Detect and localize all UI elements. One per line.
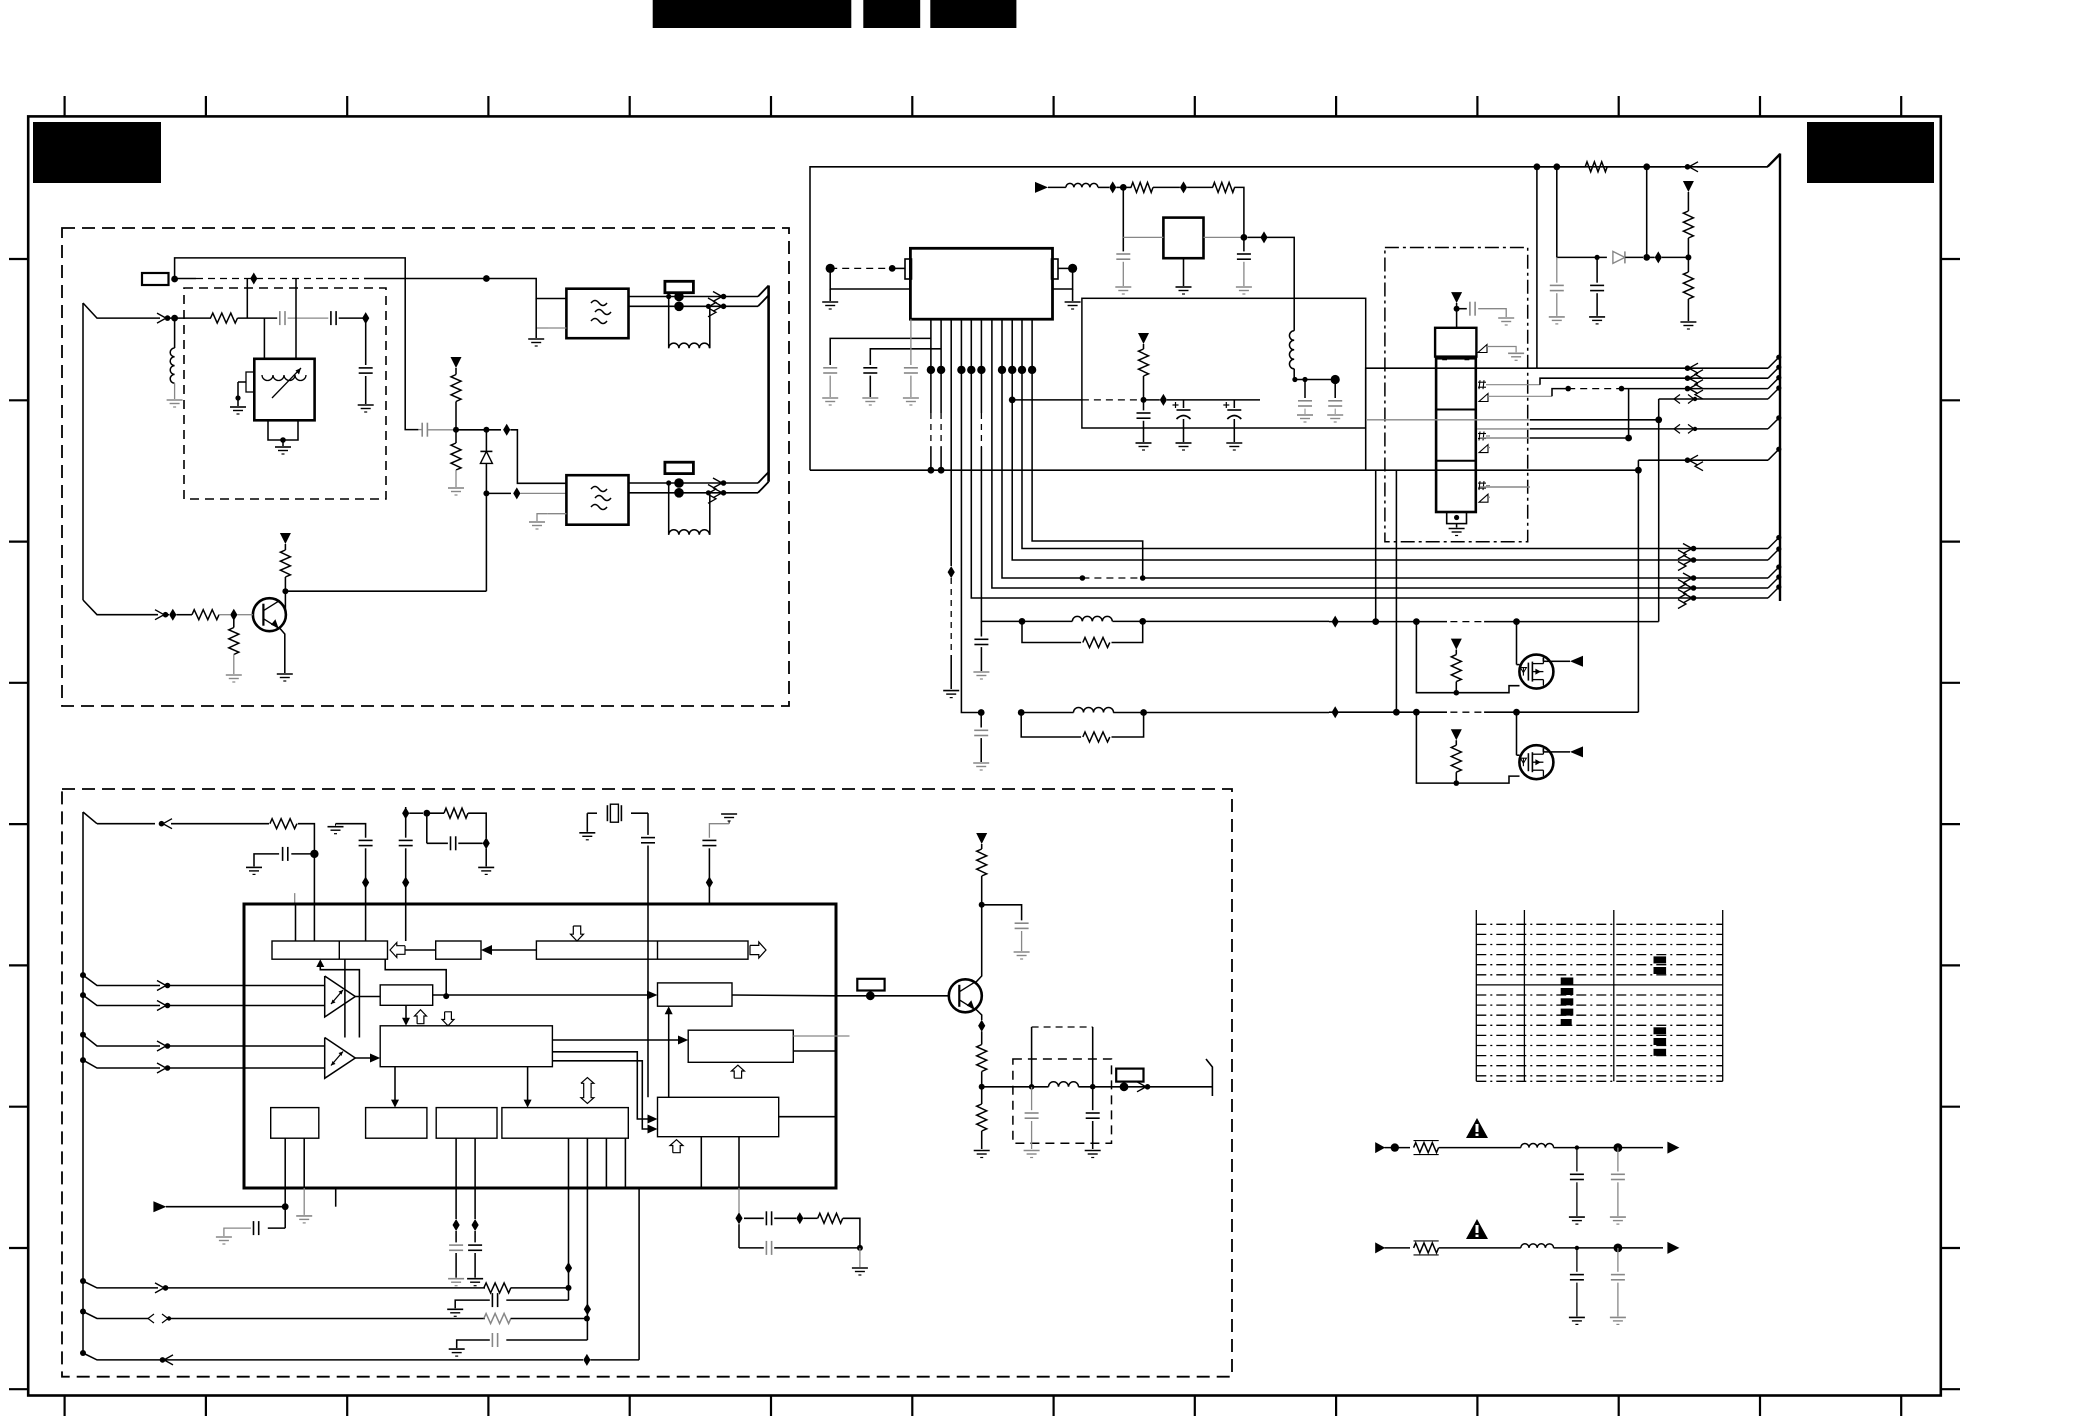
drain arrow wire [1542, 748, 1544, 752]
vertical link [1628, 389, 1630, 438]
label box P5 [1116, 1069, 1143, 1082]
block B7 video processor [380, 1026, 552, 1067]
row2 cap [980, 713, 982, 728]
bias network power arrow [451, 357, 462, 368]
up arrow under B13 [731, 1065, 744, 1078]
wire to F2 pin2 [486, 492, 511, 494]
cap pin x365 [328, 826, 344, 828]
redacted title bar 3 [930, 0, 1016, 28]
row d gate feed M1 [1658, 399, 1660, 622]
row3 diamond [583, 1354, 590, 1366]
B1 to PLL wire [385, 959, 446, 996]
block B8 [271, 1108, 319, 1139]
lower branch [426, 813, 428, 843]
power arrow Q1 collector [280, 533, 291, 544]
block B13 [688, 1030, 793, 1062]
label box P2 [665, 281, 694, 292]
input row 1 wire [83, 303, 160, 318]
voltage regulator U2 [1163, 218, 1203, 259]
resistor R14 [976, 833, 987, 844]
wire to regulator node [1234, 187, 1244, 237]
F1 ground pin [548, 327, 566, 329]
decoupling cap C8 [1334, 380, 1336, 399]
left bus box2 [82, 812, 84, 1353]
wire B7 to B14 upper [552, 1052, 653, 1119]
ecap C11 [1233, 400, 1235, 408]
dashed row segment [1450, 621, 1484, 623]
row c dashed [1552, 389, 1566, 397]
wire diode to Q1 collector [485, 493, 487, 591]
wire [339, 317, 366, 319]
B14 bottom pins [700, 1137, 702, 1188]
wire corner up [1366, 368, 1537, 470]
row1 cap to ground [506, 1299, 568, 1301]
block B3 [536, 941, 748, 959]
B8 bottom pins [284, 1138, 286, 1188]
supply input arrow [1035, 182, 1048, 193]
vertical B5 to B7 [405, 1005, 407, 1021]
block B14 [658, 1097, 779, 1136]
sec1 pins [1478, 381, 1486, 383]
cap C9 [1143, 400, 1145, 411]
cap 2 [1617, 1248, 1619, 1272]
SAW filter F1 [566, 289, 628, 339]
B13 outputs [793, 1035, 849, 1037]
wire inductor leg [174, 318, 176, 348]
label box P1 [142, 273, 169, 285]
capacitor C3 vertical [365, 318, 367, 365]
ground [230, 406, 246, 408]
row h gate feed M2 [1637, 460, 1639, 712]
label box P3 [665, 462, 694, 473]
diamond [1260, 231, 1267, 243]
cap 1 [1576, 1248, 1578, 1272]
resistor R15 [981, 1031, 983, 1044]
left pin wires [826, 264, 835, 273]
coupling capacitor C4 [418, 429, 421, 431]
series cap C15 [310, 850, 318, 858]
capacitor C1 [279, 311, 281, 325]
wire F1 ground leg [535, 299, 537, 339]
decoupling caps under IC1 [830, 338, 931, 365]
fusible resistor [1414, 1143, 1439, 1153]
feedback resistor R17 [803, 1217, 817, 1219]
wire top loop [175, 258, 419, 430]
connector body [1436, 358, 1476, 512]
B14 output [779, 1116, 836, 1118]
redacted title bar 1 [653, 0, 852, 28]
B11 bottom pins [568, 1138, 570, 1188]
ground [358, 404, 374, 406]
vertical B12 to B14 [668, 1011, 670, 1098]
wire [288, 317, 329, 319]
cap 1 [1576, 1148, 1578, 1172]
inductor L6 [1049, 1082, 1079, 1087]
bottom boundary wire [810, 469, 1638, 471]
IF bus vertical [767, 286, 770, 482]
sec3 stub [1480, 486, 1530, 488]
pin caps B9 B10 [455, 1188, 457, 1219]
ground [277, 673, 293, 675]
IC1 demodulator [910, 248, 1052, 319]
arrow into B2 [489, 949, 536, 951]
row2 damping [1018, 709, 1025, 716]
block B9 [366, 1108, 427, 1139]
junction diamond [250, 273, 257, 285]
decoupling cap C7 [1304, 380, 1306, 399]
grid tick marks [63, 96, 65, 116]
wire osc tap [246, 279, 248, 319]
connection table [1475, 910, 1477, 1081]
wire to F1 input [364, 279, 566, 299]
node [483, 490, 489, 496]
F1 outputs [629, 296, 759, 298]
wire B5 out [433, 994, 653, 996]
arrows [713, 478, 722, 488]
B9 B10 bottom pins [455, 1138, 457, 1188]
row e [1366, 419, 1530, 421]
fusible resistor [1414, 1243, 1439, 1253]
inductor [1521, 1144, 1554, 1148]
transistor Q1 [253, 598, 286, 631]
ecap C10 [1183, 400, 1185, 408]
resistor R4 [284, 544, 286, 550]
up-down arrow [581, 1078, 594, 1104]
cap C12 [1457, 308, 1467, 310]
redacted label box top-left [33, 122, 161, 183]
inductor L5 [1021, 712, 1073, 714]
MOSFET [1519, 655, 1553, 689]
IC1 bottom pins [930, 319, 932, 413]
stub pin [335, 1188, 337, 1207]
node row [1685, 254, 1691, 260]
IF section boundary wire [810, 154, 1780, 471]
open arrows B5 [415, 1010, 427, 1024]
arrows [713, 292, 722, 302]
inner dashed box oscillator [184, 288, 386, 499]
sec3 pins [1478, 482, 1486, 484]
diamond [1109, 181, 1116, 193]
gate wire [1516, 712, 1518, 755]
power arrow [1138, 333, 1149, 344]
sec2 pins [1478, 433, 1486, 435]
feedback cap C16 [744, 1217, 764, 1219]
connector neck [1443, 357, 1447, 360]
collector node [282, 588, 288, 594]
pin8 tap to supply box [1009, 397, 1016, 404]
resistor R1 [211, 313, 238, 323]
dashed enclosure tuner section [62, 228, 789, 706]
right pin wires [1068, 264, 1077, 273]
block B2 [436, 941, 481, 959]
table redaction marks col3 lower [1654, 1027, 1667, 1034]
row g [1480, 437, 1530, 439]
output flag [1206, 1059, 1212, 1096]
top loop [1031, 1027, 1033, 1087]
wire B12 out to Q2 [732, 994, 836, 997]
supply node row [1294, 379, 1335, 381]
regulator ground pin [1183, 258, 1185, 286]
MOSFET [1519, 745, 1553, 779]
T1 left pin tab [246, 372, 254, 392]
resistor R16 [981, 1087, 983, 1104]
capacitor C2 [330, 311, 332, 325]
warning triangle [1466, 1219, 1488, 1239]
arrow into mixer [157, 313, 166, 323]
pull resistor [1451, 639, 1462, 650]
row f [1477, 428, 1530, 430]
pin stub wires [1486, 384, 1540, 386]
down arrow above B3 [571, 926, 584, 941]
wires B7 to B13 [552, 1039, 684, 1041]
junction diamond [362, 312, 369, 324]
pin to osc block [405, 904, 407, 941]
ground [226, 674, 242, 676]
resistor R12 [1687, 257, 1689, 272]
wire to F2 [456, 429, 501, 431]
ground [275, 446, 291, 448]
IC1 left pin tab [905, 259, 912, 279]
wire [238, 317, 278, 319]
drain arrow wire [1542, 658, 1544, 662]
resistor R8 [1187, 186, 1213, 188]
shunt inductor T3 [668, 483, 670, 535]
M2 row to gate vertical [1517, 711, 1639, 713]
gate wire [1516, 622, 1518, 665]
resistor R7 [1123, 186, 1131, 188]
pin junction dots [927, 366, 935, 374]
triangle amp A1 [325, 976, 356, 1017]
wire B7 to B14 lower [552, 1061, 653, 1129]
ground [448, 487, 464, 489]
IC1 right pin tab [1052, 259, 1059, 279]
shunt inductor T2 [668, 297, 670, 349]
inductor L1 [170, 348, 174, 383]
ground [1115, 286, 1131, 288]
row wires to IC [169, 985, 325, 987]
node [453, 427, 459, 433]
wire [174, 383, 176, 399]
block B12 [658, 983, 733, 1006]
SAW filter F2 [566, 475, 628, 525]
row i [1635, 467, 1642, 474]
IC2 right wire to Q2 [866, 991, 875, 1000]
node A junction [171, 276, 178, 283]
block B5 PLL [380, 985, 433, 1005]
cap C14 [1596, 257, 1598, 282]
left loop wire [1416, 622, 1519, 693]
ground [167, 399, 183, 401]
input arrow [1375, 1142, 1385, 1153]
transistor Q2 [949, 979, 982, 1012]
inductor L4 [1022, 620, 1072, 622]
wire right vertical [1536, 167, 1538, 368]
regulator output cap C6 [1241, 234, 1248, 241]
row out top [83, 812, 97, 824]
redacted label box top-right [1807, 122, 1934, 183]
row1 damping [1019, 618, 1026, 625]
wire to choke [1248, 237, 1295, 330]
dash-dot module enclosure [1385, 248, 1528, 542]
right cap pin [721, 813, 737, 815]
diode D2 [1613, 251, 1625, 263]
wire dashed segment [196, 278, 364, 280]
output arrow [1667, 1142, 1679, 1154]
IC2 below pin circuits [153, 1201, 166, 1212]
Q2 collector [976, 905, 982, 983]
supply sub-box [1082, 298, 1366, 428]
gray pin stub [294, 893, 296, 904]
vertical B7 to B11 [527, 1067, 529, 1103]
T1 bottom pins [268, 420, 298, 440]
regulator input cap C5 [1122, 187, 1124, 237]
row2 cap to ground [506, 1339, 587, 1341]
top row resistor R13 [270, 819, 297, 829]
feedback row1 [484, 1283, 511, 1293]
connector foot [1447, 512, 1467, 524]
feedback row2 [484, 1314, 511, 1324]
output arrow [1667, 1242, 1679, 1254]
inductor [1521, 1244, 1554, 1248]
dashed enclosure decoder section [62, 789, 1232, 1377]
arrow A1 to B1 [320, 963, 359, 1038]
F2 ground pin [547, 513, 566, 515]
Q2 emitter [976, 1009, 982, 1020]
resistor R9 [1143, 344, 1145, 349]
junction [1120, 184, 1127, 191]
vertical feed M1 [1375, 470, 1377, 621]
cap C13 [1556, 257, 1558, 282]
emitter wire [280, 628, 285, 673]
bus jog [758, 472, 769, 483]
ground [859, 1248, 861, 1267]
top triangle pin [1478, 345, 1487, 353]
node [1141, 397, 1147, 403]
ground [528, 338, 544, 340]
resistor R2 [455, 368, 457, 375]
resistor R10 [1585, 162, 1607, 172]
open arrow out B3 [750, 942, 766, 958]
resistor R11 [1687, 192, 1689, 211]
label box P4 [857, 979, 884, 991]
dashed row segment [1450, 711, 1484, 713]
power arrow [1683, 181, 1694, 192]
RC feedback network [402, 807, 409, 819]
bottom bus rows [1768, 537, 1780, 549]
open arrow into B1 [390, 943, 405, 958]
module power arrow [1451, 292, 1462, 303]
B1 pin down [344, 959, 346, 1037]
collector cap [982, 905, 1022, 921]
block B11 [502, 1108, 628, 1139]
input cap [268, 1227, 285, 1229]
output dot arrow [1120, 1082, 1129, 1091]
row diamond [1332, 706, 1339, 718]
connector top box [1435, 328, 1476, 357]
row wire [1329, 711, 1447, 713]
IC2 top pins into B1 [295, 904, 297, 941]
block B1 [272, 941, 388, 959]
row a to bus [1537, 367, 1650, 369]
row b to bus [1540, 378, 1650, 385]
node dot [483, 275, 490, 282]
triangle amp A2 [325, 1038, 356, 1079]
vertical feed M2 [1395, 470, 1397, 712]
F2 outputs [629, 482, 759, 484]
row diamond [1332, 616, 1339, 628]
filter caps [1031, 1087, 1033, 1110]
Q2 feedback network pin [738, 1188, 740, 1213]
resistor R5 [192, 610, 219, 620]
pull resistor [1451, 729, 1462, 740]
base divider resistor R6 [233, 615, 235, 628]
IC2 main decoder [244, 904, 836, 1188]
left loop wire [1416, 712, 1519, 783]
vertical B7 to B9 [394, 1067, 396, 1103]
corner resistor wire [1537, 166, 1586, 168]
resistor R3 [455, 430, 457, 443]
dashed supply wire [1082, 399, 1144, 401]
diamond [1180, 181, 1187, 193]
LC filter dashed box [1013, 1059, 1112, 1143]
crystal X1 [587, 812, 597, 814]
variable transformer T1 [254, 359, 314, 421]
redacted title bar 2 [863, 0, 920, 28]
diode D1 [485, 430, 487, 452]
block B10 [436, 1108, 497, 1139]
T1 pin wires top [263, 318, 265, 359]
inductor L2 [1066, 183, 1098, 187]
table redaction marks col2 [1561, 978, 1574, 985]
bias row wires [1556, 167, 1558, 258]
M1 row to gate vertical [1517, 621, 1659, 623]
input arrow [1375, 1242, 1385, 1253]
output row [982, 1086, 1049, 1088]
wire node A to filter F1 [175, 278, 196, 280]
cap 2 [1617, 1148, 1619, 1172]
row1 cap [980, 620, 982, 622]
feedback cap C17 [739, 1247, 764, 1249]
bottom rows [80, 1278, 86, 1284]
right bus [1779, 154, 1781, 602]
row wire [1329, 621, 1447, 623]
inductor L3 [1289, 331, 1294, 369]
base wire [82, 599, 84, 601]
bus jog [758, 286, 769, 297]
junction dot [171, 315, 178, 322]
pin ground [303, 1188, 305, 1215]
table redaction marks col3 upper [1654, 956, 1667, 963]
left bus wire [82, 303, 84, 600]
input rows [80, 972, 86, 978]
up arrow under B14 [670, 1140, 683, 1153]
warning triangle [1466, 1118, 1488, 1138]
